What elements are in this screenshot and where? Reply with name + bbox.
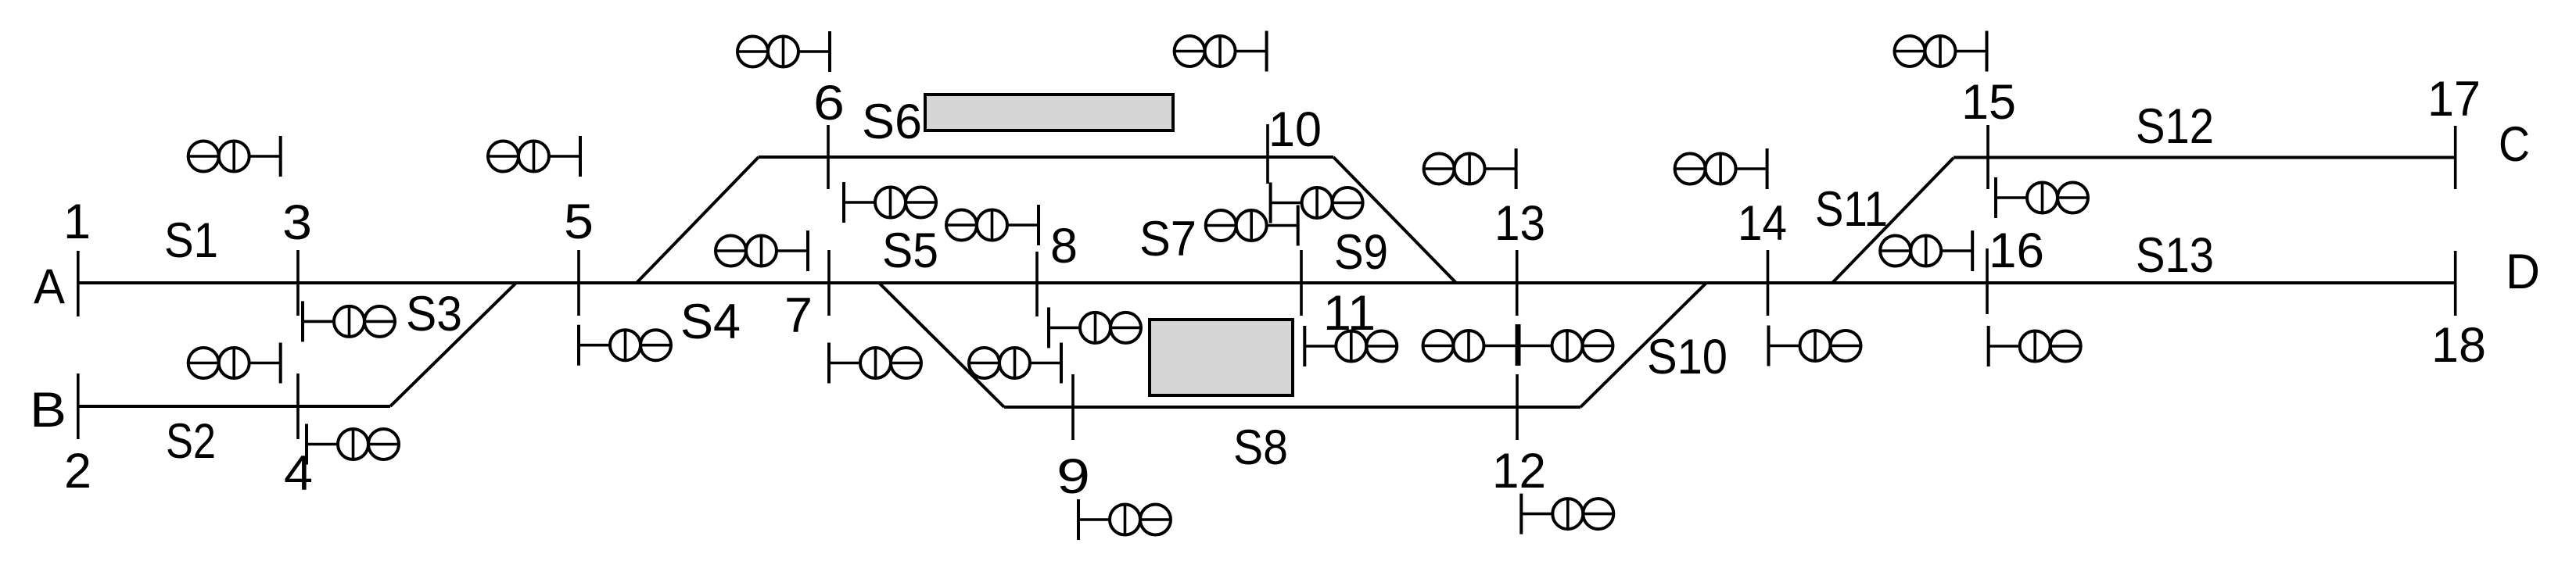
svg-text:S8: S8	[1233, 420, 1288, 475]
svg-text:S2: S2	[166, 414, 216, 469]
signal below node 9 (left-facing signal)	[1078, 499, 1171, 540]
wire line B	[78, 405, 390, 408]
signal above node 5 (right-facing signal)	[488, 136, 580, 177]
svg-text:4: 4	[284, 446, 313, 501]
signal left of node 8 (right-facing signal)	[946, 205, 1039, 245]
svg-text:S13: S13	[2136, 228, 2214, 283]
signal on lower loop diagonal left of node 9 (right-facing signal)	[969, 343, 1061, 384]
wire S11 diagonal to line C	[1832, 158, 1954, 283]
signal S3 below node 3 (left-facing signal)	[303, 301, 395, 341]
svg-text:9: 9	[1057, 449, 1090, 504]
svg-text:C: C	[2499, 117, 2530, 172]
signal above node 14 (right-facing signal)	[1675, 148, 1767, 189]
svg-text:1: 1	[63, 195, 91, 249]
wire upper loop left diagonal	[637, 157, 759, 283]
node 14 tick	[1767, 250, 1770, 316]
svg-text:S3: S3	[406, 287, 462, 341]
wire main line A-D	[78, 281, 2456, 284]
node 10 tick	[1266, 124, 1269, 184]
signal left of node 7 above main line (right-facing signal)	[716, 231, 808, 271]
node 3 tick	[296, 250, 300, 316]
double signal at node 13, right half (left-facing)	[1521, 331, 1613, 361]
svg-text:S5: S5	[882, 223, 938, 278]
svg-text:S9: S9	[1334, 225, 1388, 280]
signal above node 13 (right-facing signal)	[1424, 148, 1516, 189]
node 1 tick	[77, 251, 80, 316]
node 15 tick	[1986, 125, 1989, 189]
node 8 tick	[1035, 252, 1039, 316]
node 12 tick	[1516, 374, 1519, 440]
svg-text:S6: S6	[862, 95, 922, 149]
svg-text:B: B	[30, 383, 66, 438]
node 11 tick	[1300, 250, 1303, 316]
signal above line B left of node 4 (right-facing signal)	[188, 343, 281, 384]
node 4 tick	[296, 373, 300, 439]
svg-text:10: 10	[1268, 102, 1322, 157]
signal above node 15 (right-facing signal)	[1895, 31, 1987, 72]
signal below node 8 (left-facing signal)	[1049, 307, 1141, 348]
signal below node 16 (left-facing signal)	[1989, 326, 2081, 366]
svg-text:6: 6	[813, 76, 845, 130]
svg-text:18: 18	[2431, 318, 2486, 373]
svg-text:S11: S11	[1815, 182, 1888, 237]
signal below node 14 (left-facing signal)	[1769, 326, 1861, 366]
node 6 tick	[827, 125, 830, 189]
signal above node 6 (right-facing signal)	[737, 31, 830, 72]
wire lower loop right diagonal	[1580, 283, 1706, 407]
wire lower loop S8 track	[1004, 406, 1580, 409]
svg-text:7: 7	[784, 288, 813, 343]
svg-text:17: 17	[2427, 72, 2481, 127]
platform 2 (lower, between tracks)	[1150, 320, 1293, 395]
node 16 tick	[1986, 248, 1989, 314]
node 17 tick	[2454, 126, 2457, 189]
svg-text:8: 8	[1050, 219, 1078, 273]
node 5 tick	[577, 250, 580, 316]
svg-text:14: 14	[1738, 196, 1787, 251]
wire line C S12 track	[1954, 156, 2456, 159]
signal S9 below node 10 (left-facing signal)	[1271, 183, 1363, 223]
wire lower loop left diagonal	[879, 283, 1004, 407]
wire upper loop S6 track	[759, 155, 1333, 159]
double signal at node 13 with bold mast, left half (right-facing)	[1423, 324, 1521, 366]
signal S5 below node 6 (left-facing signal)	[844, 182, 936, 223]
wire upper loop right diagonal	[1333, 157, 1456, 283]
wire turnout diagonal B to main line	[390, 283, 516, 406]
signal left of node 16 above main line (right-facing signal)	[1880, 231, 1972, 271]
svg-text:5: 5	[564, 195, 594, 249]
signal below node 7 (left-facing signal)	[829, 343, 921, 384]
svg-text:S1: S1	[164, 213, 218, 268]
svg-text:2: 2	[64, 444, 91, 499]
signal S4 below node 5 (left-facing signal)	[579, 325, 671, 366]
svg-text:13: 13	[1494, 196, 1545, 251]
platform 1 (upper, next to S6 label)	[925, 95, 1173, 130]
svg-text:A: A	[34, 259, 65, 314]
signal at node 11 (left-facing signal)	[1304, 326, 1397, 366]
signal below node 4 (left-facing signal)	[307, 424, 399, 465]
svg-text:15: 15	[1961, 75, 2016, 130]
svg-text:11: 11	[1323, 286, 1376, 341]
signal below node 15 (left-facing signal)	[1996, 177, 2088, 218]
svg-text:D: D	[2506, 245, 2540, 299]
node 7 tick	[827, 250, 831, 316]
signal above node 3 (right-facing signal)	[188, 136, 281, 177]
svg-text:16: 16	[1989, 223, 2044, 278]
signal S7 mast (right-facing signal)	[1206, 206, 1298, 246]
svg-text:3: 3	[282, 195, 312, 250]
node 2 tick	[77, 373, 80, 439]
svg-text:S12: S12	[2136, 99, 2214, 154]
node 13 tick	[1516, 250, 1519, 316]
svg-text:S7: S7	[1139, 212, 1197, 266]
node 18 tick	[2454, 251, 2457, 316]
svg-text:S10: S10	[1647, 330, 1727, 384]
signal above node 10 (right-facing signal)	[1175, 31, 1267, 72]
svg-text:12: 12	[1492, 444, 1546, 499]
signal below node 12 (left-facing signal)	[1521, 494, 1613, 534]
svg-text:S4: S4	[680, 295, 741, 349]
node 9 tick	[1071, 374, 1075, 440]
